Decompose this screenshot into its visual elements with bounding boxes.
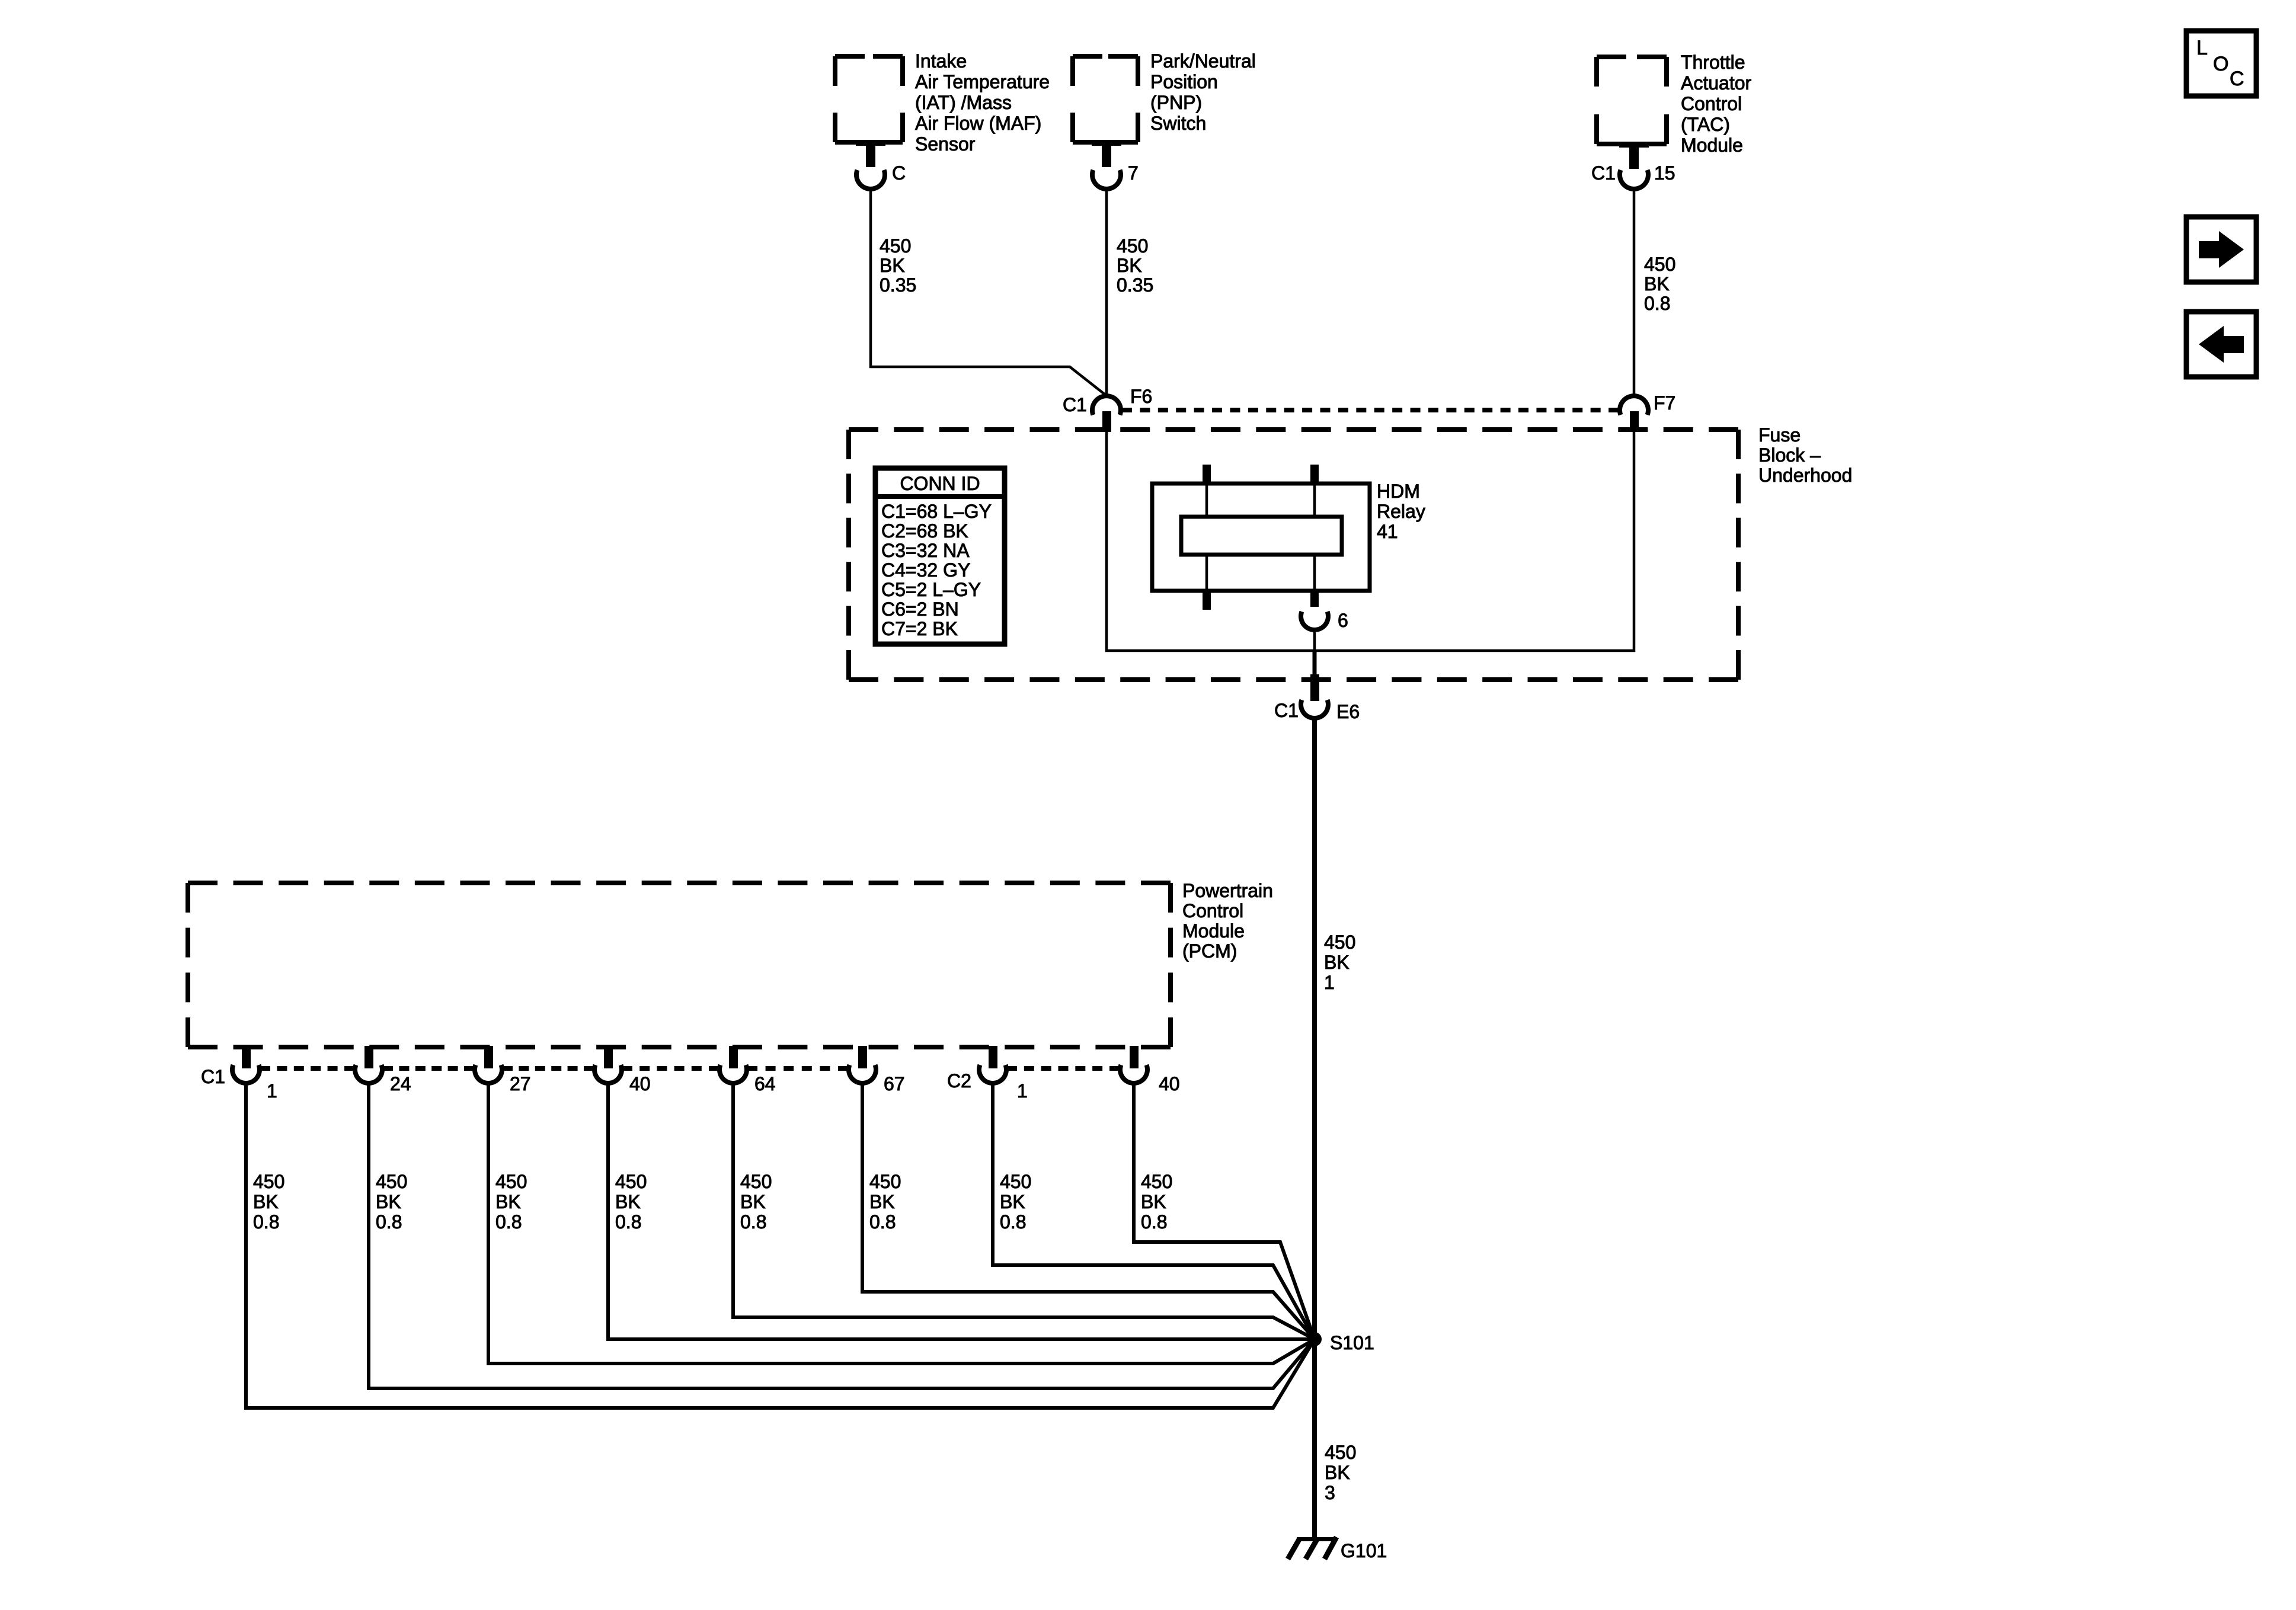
wire: PCM C1 pin 24 to splice S101 (450 BK 0.8) <box>369 1083 1315 1388</box>
svg-text:0.35: 0.35 <box>880 274 916 296</box>
value label: 450 BK 1 (E6 to S101) <box>1324 932 1355 993</box>
svg-text:S101: S101 <box>1330 1332 1374 1353</box>
label: PCM connector C2 designator <box>947 1070 971 1092</box>
value label: 450 BK 0.8 (C2 pin 40 wire) <box>1141 1171 1172 1233</box>
label: MAF sensor name <box>915 50 1050 155</box>
svg-text:41: 41 <box>1377 521 1398 542</box>
connector PCM C1 pin 27 <box>475 1046 531 1094</box>
svg-text:Control: Control <box>1681 93 1742 114</box>
value label: 450 BK 0.8 (C1 pin 1 wire) <box>253 1171 284 1233</box>
svg-text:Switch: Switch <box>1150 113 1206 134</box>
svg-text:0.8: 0.8 <box>495 1211 522 1233</box>
svg-text:BK: BK <box>376 1191 401 1212</box>
svg-text:BK: BK <box>869 1191 895 1212</box>
svg-text:E6: E6 <box>1336 701 1360 722</box>
label: Powertrain Control Module (PCM) <box>1182 880 1273 962</box>
wire: PCM C1 pin 40 to splice S101 (450 BK 0.8) <box>608 1083 1315 1339</box>
svg-text:450: 450 <box>740 1171 772 1192</box>
svg-text:40: 40 <box>1159 1073 1180 1094</box>
value label: 450 BK 0.8 (C2 pin 1 wire) <box>1000 1171 1031 1233</box>
svg-text:0.8: 0.8 <box>1141 1211 1167 1233</box>
svg-text:7: 7 <box>1128 162 1139 184</box>
relay pin stub top-right <box>1310 465 1319 517</box>
svg-text:450: 450 <box>869 1171 901 1192</box>
svg-text:C6=2 BN: C6=2 BN <box>881 598 959 620</box>
svg-text:64: 64 <box>754 1073 776 1094</box>
svg-text:450: 450 <box>1644 254 1675 275</box>
svg-text:450: 450 <box>615 1171 647 1192</box>
label: PNP switch name <box>1150 50 1256 134</box>
wire: PNP switch pin 7 to fuse block F6 (450 BK 0.35) <box>1105 188 1108 396</box>
wire: PCM C1 pin 1 to splice S101 (450 BK 0.8) <box>246 1083 1315 1408</box>
svg-text:(PNP): (PNP) <box>1150 92 1202 113</box>
svg-text:6: 6 <box>1338 610 1348 631</box>
svg-text:450: 450 <box>1141 1171 1172 1192</box>
svg-text:C3=32 NA: C3=32 NA <box>881 540 970 561</box>
svg-text:BK: BK <box>1117 255 1142 276</box>
dotted internal bus: F6 to F7 <box>1122 408 1619 412</box>
connector PCM C1 pin 1 <box>232 1046 277 1102</box>
wire: TAC module pin 15 to fuse block F7 (450 BK 0.8) <box>1633 188 1636 396</box>
svg-text:BK: BK <box>1324 952 1350 973</box>
splice S101 <box>1307 1332 1374 1353</box>
component box: Fuse Block - Underhood <box>849 430 1738 680</box>
svg-text:0.8: 0.8 <box>869 1211 896 1233</box>
value label: 450 BK 0.35 (PNP wire) <box>1117 235 1153 296</box>
svg-text:3: 3 <box>1325 1482 1335 1503</box>
svg-text:C: C <box>2230 68 2244 90</box>
svg-text:Block –: Block – <box>1758 444 1821 466</box>
svg-text:BK: BK <box>253 1191 279 1212</box>
svg-text:Sensor: Sensor <box>915 133 976 155</box>
svg-text:C2: C2 <box>947 1070 971 1092</box>
svg-text:24: 24 <box>390 1073 411 1094</box>
svg-text:Position: Position <box>1150 71 1218 92</box>
connector PCM C2 pin 40 <box>1120 1046 1180 1094</box>
svg-text:BK: BK <box>740 1191 766 1212</box>
svg-text:450: 450 <box>880 235 911 257</box>
svg-text:1: 1 <box>1017 1080 1028 1102</box>
svg-text:450: 450 <box>1117 235 1148 257</box>
connector pin 7 of PNP switch <box>1092 140 1139 189</box>
svg-text:450: 450 <box>1325 1442 1356 1463</box>
connector pin C of MAF sensor <box>856 140 906 189</box>
relay pin stub bottom-left <box>1203 555 1211 610</box>
svg-text:450: 450 <box>1000 1171 1031 1192</box>
connector PCM C1 pin 40 <box>594 1046 651 1094</box>
connector C1 pin 15 of TAC module <box>1591 142 1675 189</box>
wire: F6 down to internal junction <box>1105 432 1108 652</box>
svg-text:C1=68 L–GY: C1=68 L–GY <box>881 501 992 522</box>
icon arrow-left box (diagram continues) <box>2186 312 2256 377</box>
svg-text:F7: F7 <box>1654 392 1675 414</box>
svg-text:40: 40 <box>629 1073 651 1094</box>
svg-text:CONN ID: CONN ID <box>900 473 980 494</box>
svg-text:C1: C1 <box>1274 700 1299 721</box>
svg-text:(IAT) /Mass: (IAT) /Mass <box>915 92 1012 113</box>
connector PCM C1 pin 67 <box>849 1046 905 1094</box>
svg-text:Actuator: Actuator <box>1681 72 1752 94</box>
svg-text:C1: C1 <box>1063 394 1087 415</box>
value label: 450 BK 0.8 (C1 pin 24 wire) <box>376 1171 407 1233</box>
svg-text:HDM: HDM <box>1377 481 1420 502</box>
svg-text:C4=32 GY: C4=32 GY <box>881 559 970 581</box>
svg-text:C7=2 BK: C7=2 BK <box>881 618 958 639</box>
svg-text:(TAC): (TAC) <box>1681 114 1730 135</box>
label: HDM Relay 41 <box>1377 481 1425 542</box>
wire: PCM C1 pin 64 to splice S101 (450 BK 0.8) <box>733 1083 1315 1339</box>
dotted internal bus: PCM ground pins <box>260 1066 1120 1071</box>
icon arrow-right box (diagram continues) <box>2186 217 2256 282</box>
connector F6 (C1) on fuse block <box>1063 386 1152 432</box>
wire: PCM C2 pin 40 to splice S101 (450 BK 0.8) <box>1134 1083 1315 1339</box>
svg-text:67: 67 <box>884 1073 905 1094</box>
svg-text:Underhood: Underhood <box>1758 465 1852 486</box>
svg-text:BK: BK <box>1141 1191 1166 1212</box>
relay HDM Relay 41 (outer body) <box>1152 484 1370 591</box>
relay pin 6 (bottom-right) with connector arc <box>1301 555 1348 631</box>
ground G101 <box>1288 1537 1387 1561</box>
svg-text:Module: Module <box>1182 920 1245 942</box>
svg-text:F6: F6 <box>1130 386 1152 407</box>
svg-text:BK: BK <box>1000 1191 1025 1212</box>
wire: PCM C2 pin 1 to splice S101 (450 BK 0.8) <box>993 1083 1315 1339</box>
connector PCM C1 pin 24 <box>355 1046 411 1094</box>
value label: 450 BK 0.8 (TAC wire) <box>1644 254 1675 314</box>
component box: Powertrain Control Module (PCM) <box>188 883 1171 1047</box>
svg-text:450: 450 <box>1324 932 1355 953</box>
svg-text:1: 1 <box>267 1080 277 1102</box>
svg-text:Relay: Relay <box>1377 501 1425 522</box>
svg-text:BK: BK <box>1644 273 1670 295</box>
svg-text:Park/Neutral: Park/Neutral <box>1150 50 1256 72</box>
value label: 450 BK 0.8 (C1 pin 27 wire) <box>495 1171 527 1233</box>
connector C1 pin E6 (fuse block output) <box>1274 651 1360 722</box>
svg-text:C: C <box>892 162 906 184</box>
value label: 450 BK 0.8 (C1 pin 40 wire) <box>615 1171 647 1233</box>
wire: PCM C1 pin 27 to splice S101 (450 BK 0.8) <box>488 1083 1315 1363</box>
svg-text:BK: BK <box>880 255 905 276</box>
svg-text:0.8: 0.8 <box>740 1211 766 1233</box>
svg-text:27: 27 <box>510 1073 531 1094</box>
svg-text:Control: Control <box>1182 900 1243 921</box>
value label: 450 BK 3 (S101 to G101) <box>1325 1442 1356 1503</box>
svg-text:Intake: Intake <box>915 50 967 72</box>
svg-text:O: O <box>2213 53 2228 75</box>
value label: 450 BK 0.8 (C1 pin 67 wire) <box>869 1171 901 1233</box>
wire: internal junction horizontal (F6/F7/relay pin 6 common) <box>1105 649 1635 652</box>
svg-text:C5=2 L–GY: C5=2 L–GY <box>881 579 981 600</box>
table: CONN ID <box>875 468 1005 644</box>
svg-text:0.35: 0.35 <box>1117 274 1153 296</box>
svg-text:C1: C1 <box>201 1066 225 1087</box>
svg-text:450: 450 <box>376 1171 407 1192</box>
icon LOC reference box <box>2186 31 2256 96</box>
relay pin stub top-left <box>1203 465 1211 517</box>
svg-text:Throttle: Throttle <box>1681 52 1745 73</box>
svg-text:Fuse: Fuse <box>1758 424 1801 446</box>
svg-text:L: L <box>2196 37 2208 59</box>
svg-text:15: 15 <box>1654 162 1675 184</box>
svg-text:BK: BK <box>615 1191 641 1212</box>
svg-text:0.8: 0.8 <box>615 1211 641 1233</box>
wire: F7 down to internal junction <box>1633 432 1636 652</box>
svg-text:450: 450 <box>253 1171 284 1192</box>
svg-text:BK: BK <box>495 1191 521 1212</box>
connector PCM C1 pin 64 <box>720 1046 776 1094</box>
value label: 450 BK 0.35 (MAF wire) <box>880 235 916 296</box>
label: PCM connector C1 designator <box>201 1066 225 1087</box>
connector F7 on fuse block <box>1620 392 1675 432</box>
svg-text:Powertrain: Powertrain <box>1182 880 1273 901</box>
connector PCM C2 pin 1 <box>979 1046 1028 1102</box>
svg-text:G101: G101 <box>1341 1540 1387 1561</box>
component box: Throttle Actuator Control (TAC) Module <box>1597 57 1667 144</box>
wire: PCM C1 pin 67 to splice S101 (450 BK 0.8) <box>862 1083 1315 1339</box>
svg-text:C2=68 BK: C2=68 BK <box>881 520 968 542</box>
wire: MAF sensor pin C to fuse block F6 (450 BK 0.35) <box>871 188 1106 395</box>
svg-text:0.8: 0.8 <box>253 1211 279 1233</box>
svg-text:0.8: 0.8 <box>1644 293 1670 314</box>
svg-text:Module: Module <box>1681 135 1743 156</box>
component box: Park/Neutral Position (PNP) Switch <box>1073 56 1138 142</box>
label: TAC module name <box>1681 52 1752 156</box>
wire: relay pin 6 down to junction <box>1313 629 1316 652</box>
svg-text:Air Temperature: Air Temperature <box>915 71 1050 92</box>
svg-text:0.8: 0.8 <box>376 1211 402 1233</box>
wire: E6 to S101 to G101 main ground (450 BK) <box>1312 718 1317 1539</box>
svg-text:(PCM): (PCM) <box>1182 940 1237 962</box>
svg-text:Air Flow (MAF): Air Flow (MAF) <box>915 113 1041 134</box>
svg-text:C1: C1 <box>1591 162 1616 184</box>
svg-text:BK: BK <box>1325 1462 1350 1483</box>
component box: Intake Air Temperature (IAT) / Mass Air Flow (MAF) Sensor <box>835 56 903 142</box>
svg-text:0.8: 0.8 <box>1000 1211 1026 1233</box>
label: Fuse Block - Underhood <box>1758 424 1852 486</box>
svg-text:1: 1 <box>1324 972 1335 993</box>
value label: 450 BK 0.8 (C1 pin 64 wire) <box>740 1171 772 1233</box>
svg-text:450: 450 <box>495 1171 527 1192</box>
